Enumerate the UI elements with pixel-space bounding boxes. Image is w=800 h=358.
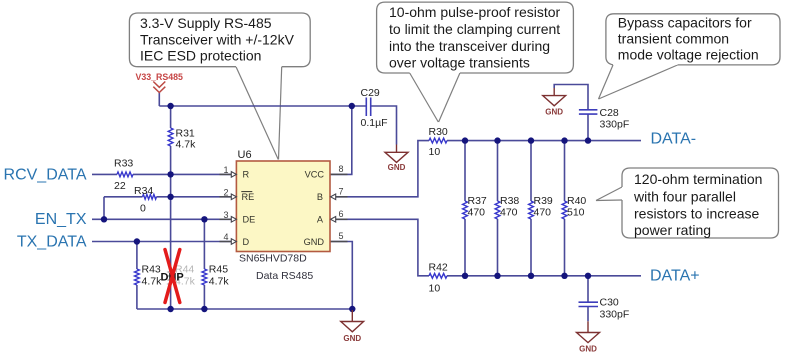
- resistor R37 470: [463, 201, 468, 219]
- svg-text:10-ohm pulse-proof resistor: 10-ohm pulse-proof resistor: [389, 4, 561, 20]
- svg-text:U6: U6: [238, 149, 252, 161]
- svg-text:8: 8: [338, 164, 343, 174]
- node RE/R44: [167, 194, 173, 200]
- pin 7 arrow: [331, 194, 336, 200]
- callout note 1: 3.3-V Supply: [129, 13, 310, 160]
- pin 4 arrow: [231, 239, 236, 245]
- wire R43 column: [136, 242, 138, 310]
- node VCC/pin8: [349, 103, 355, 109]
- svg-text:GND: GND: [545, 107, 563, 116]
- pin 2 arrow: [231, 194, 236, 200]
- ground symbol C28: [543, 88, 566, 106]
- svg-text:R39: R39: [534, 195, 553, 207]
- svg-text:SN65HVD78D: SN65HVD78D: [239, 253, 307, 265]
- svg-text:D: D: [243, 237, 250, 247]
- callout note 4: 120-ohm termination: [596, 168, 779, 238]
- svg-text:DATA+: DATA+: [650, 267, 700, 284]
- svg-text:power rating: power rating: [634, 222, 711, 238]
- svg-text:over voltage transients: over voltage transients: [389, 55, 530, 71]
- svg-text:Data RS485: Data RS485: [256, 270, 313, 282]
- svg-text:GND: GND: [343, 334, 361, 343]
- svg-text:4.7k: 4.7k: [176, 139, 197, 151]
- svg-text:DATA-: DATA-: [651, 131, 697, 148]
- node TX_DATA/R43: [134, 238, 140, 244]
- pin stubs (gray): [220, 174, 348, 241]
- svg-text:R43: R43: [142, 263, 161, 275]
- node gnd rail pin5: [349, 306, 355, 312]
- node DATA- C28: [585, 137, 591, 143]
- svg-text:Transceiver with +/-12kV: Transceiver with +/-12kV: [140, 32, 295, 48]
- svg-text:RCV_DATA: RCV_DATA: [4, 167, 87, 184]
- wire R39 column: [530, 141, 532, 276]
- node DATA+ C30: [585, 273, 591, 279]
- svg-text:GND: GND: [388, 163, 406, 172]
- svg-text:mode voltage rejection: mode voltage rejection: [618, 47, 759, 63]
- node EN_TX/R34: [101, 216, 107, 222]
- svg-text:R33: R33: [114, 158, 133, 170]
- pin 1 arrow: [231, 172, 236, 178]
- svg-text:3: 3: [223, 210, 228, 220]
- svg-text:C28: C28: [600, 107, 619, 119]
- svg-text:A: A: [317, 215, 324, 225]
- svg-text:3.3-V Supply RS-485: 3.3-V Supply RS-485: [140, 15, 272, 31]
- resistor R33 22: [117, 172, 133, 177]
- node gnd rail R44: [167, 306, 173, 312]
- wire RE column through R44: [170, 174, 172, 309]
- svg-text:Bypass capacitors for: Bypass capacitors for: [618, 15, 752, 31]
- svg-text:VCC: VCC: [305, 170, 325, 180]
- svg-text:4.7k: 4.7k: [209, 275, 230, 287]
- node DATA- R37: [462, 137, 468, 143]
- node DATA- R38: [494, 137, 500, 143]
- svg-text:GND: GND: [304, 237, 325, 247]
- svg-text:C29: C29: [361, 87, 380, 99]
- node DATA+ R39: [528, 273, 534, 279]
- svg-text:RE: RE: [242, 192, 255, 202]
- svg-text:to limit the clamping current: to limit the clamping current: [389, 21, 560, 37]
- svg-text:470: 470: [500, 206, 518, 218]
- pin 3 arrow: [231, 217, 236, 223]
- svg-text:resistors to increase: resistors to increase: [634, 206, 759, 222]
- svg-text:R45: R45: [209, 263, 228, 275]
- resistor R31 4.7k (zigzag): [168, 128, 173, 146]
- wire R37 column: [464, 141, 466, 276]
- svg-text:R30: R30: [429, 126, 448, 138]
- svg-text:transient common: transient common: [618, 31, 729, 47]
- node DATA+ R38: [494, 273, 500, 279]
- svg-text:1: 1: [223, 165, 228, 175]
- svg-text:330pF: 330pF: [600, 309, 630, 321]
- svg-text:R34: R34: [134, 185, 153, 197]
- resistor R39 470: [529, 201, 534, 219]
- resistor R38 470: [495, 201, 500, 219]
- wire R34 row: [104, 196, 232, 198]
- ground symbol C30: [577, 321, 600, 342]
- resistor R42 10: [429, 273, 447, 278]
- ground symbol IC pin5: [341, 310, 364, 332]
- capacitor C29 0.1uF plates: [366, 98, 598, 307]
- wire R40 column: [564, 141, 566, 276]
- wire R38 column: [497, 141, 499, 276]
- svg-text:4: 4: [223, 232, 228, 242]
- wire pin6 A to R42: [330, 219, 429, 275]
- svg-text:120-ohm termination: 120-ohm termination: [634, 171, 762, 187]
- wire TX_DATA row: [92, 241, 232, 243]
- svg-text:B: B: [317, 192, 323, 202]
- svg-text:TX_DATA: TX_DATA: [17, 233, 87, 250]
- capacitor C28 330pF plates: [579, 110, 598, 114]
- svg-text:5: 5: [338, 231, 343, 241]
- resistor R45 4.7k: [202, 269, 207, 285]
- wire DATA+ rail: [447, 275, 641, 277]
- svg-text:0.1µF: 0.1µF: [361, 117, 388, 129]
- svg-text:10: 10: [429, 146, 441, 158]
- wire pin5 GND stub: [330, 242, 352, 310]
- svg-text:R42: R42: [429, 262, 448, 274]
- node DATA- R40: [561, 137, 567, 143]
- callout note 3: Bypass capacitors: [599, 14, 781, 99]
- svg-text:R: R: [243, 170, 250, 180]
- wire C29 to GND: [371, 106, 397, 145]
- node gnd rail R45: [201, 306, 207, 312]
- wire pin8 VCC stub: [330, 106, 352, 174]
- svg-text:0: 0: [140, 203, 146, 215]
- power V33_RS485 symbol: [153, 82, 165, 93]
- wire pin7 B to R30: [330, 141, 429, 197]
- node DATA- R39: [528, 137, 534, 143]
- resistor R43 4.7k: [134, 269, 139, 285]
- wire R45 column: [203, 219, 205, 309]
- svg-text:IEC ESD protection: IEC ESD protection: [140, 48, 261, 64]
- wire R31 column (VCC to pin1 row): [170, 106, 172, 174]
- capacitor C30 330pF plates: [579, 302, 599, 306]
- resistor R40 510: [562, 201, 567, 219]
- node RCV/R31: [167, 171, 173, 177]
- svg-text:EN_TX: EN_TX: [35, 211, 87, 228]
- node DATA+ R37: [462, 273, 468, 279]
- node DATA+ R40: [561, 273, 567, 279]
- svg-text:DE: DE: [243, 215, 256, 225]
- wire C30 column: [587, 276, 589, 322]
- resistor R34 0: [143, 194, 157, 199]
- svg-text:into the transceiver during: into the transceiver during: [389, 38, 550, 54]
- svg-text:470: 470: [534, 206, 552, 218]
- svg-text:4.7k: 4.7k: [142, 275, 163, 287]
- svg-text:GND: GND: [579, 345, 597, 354]
- wire RCV_DATA row: [92, 173, 232, 175]
- svg-text:22: 22: [114, 180, 126, 192]
- wire VCC rail: [159, 105, 366, 107]
- resistor R44 4.7k DNP (gray): [168, 269, 173, 285]
- ground symbol C29: [385, 145, 408, 163]
- svg-text:2: 2: [223, 187, 228, 197]
- wire bottom ground rail: [137, 308, 352, 310]
- svg-text:510: 510: [567, 206, 585, 218]
- svg-text:6: 6: [338, 209, 343, 219]
- wire C28 column: [554, 85, 588, 141]
- svg-text:V33_RS485: V33_RS485: [136, 72, 184, 82]
- callout note 2: 10-ohm pulse-proof resistor: [377, 2, 574, 122]
- wire DATA- rail: [447, 140, 641, 142]
- node VCC/R31: [167, 103, 173, 109]
- wire V33 stem: [158, 92, 160, 106]
- resistor R30 10: [429, 138, 447, 143]
- op-amp/transceiver U6 body: [236, 161, 330, 252]
- wire R34 elbow to EN_TX: [103, 197, 105, 220]
- svg-text:470: 470: [468, 206, 486, 218]
- svg-text:with four parallel: with four parallel: [633, 189, 736, 205]
- svg-text:R40: R40: [567, 195, 586, 207]
- svg-text:C30: C30: [600, 297, 619, 309]
- node EN_TX/R45: [201, 216, 207, 222]
- DNP red X over R44: [165, 250, 180, 303]
- svg-text:R38: R38: [500, 195, 519, 207]
- svg-text:10: 10: [429, 283, 441, 295]
- svg-text:7: 7: [338, 186, 343, 196]
- pin 6 arrow: [331, 217, 336, 223]
- svg-text:330pF: 330pF: [600, 119, 630, 131]
- wire EN_TX row: [92, 218, 232, 220]
- svg-text:R37: R37: [468, 195, 487, 207]
